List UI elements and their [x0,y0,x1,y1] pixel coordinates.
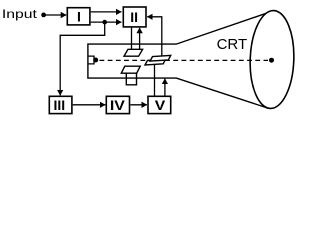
svg-text:I: I [77,8,81,24]
svg-text:IV: IV [110,97,126,113]
wire IV to V [130,104,147,106]
box I [67,8,90,25]
CRT neck and cone outline [88,13,268,108]
CRT screen ellipse [249,10,296,109]
wire III to IV [73,104,106,106]
lower plate tab below neck [126,73,136,85]
beam spot on screen [269,58,274,63]
electron beam dashed line [100,59,269,61]
wire input to box I [44,14,67,16]
svg-text:Input: Input [2,9,38,21]
svg-text:V: V [155,97,166,113]
box IV [106,96,129,113]
gun cathode dot [93,58,98,63]
wire box V up-arrow to neck bottom [164,79,166,96]
lower vertical-deflection plate [121,66,140,73]
wire box II bottom to upper plate (left lead) [131,27,133,49]
svg-text:CRT: CRT [217,36,248,53]
wire from rear deflection plate up and left into box II [147,17,162,56]
wire upper plate to box II with up arrow (right lead) [139,28,141,50]
rear horizontal-deflection plate [150,55,171,61]
electron gun [88,56,94,64]
wire I to II upper [91,11,122,13]
box II [123,7,146,27]
box III [49,96,72,113]
upper vertical-deflection plate [124,49,143,56]
box V [148,96,171,113]
front horizontal-deflection plate [145,59,166,65]
svg-text:II: II [130,9,138,25]
wire front plate down to box V [154,65,156,96]
wire I to II lower [91,21,122,23]
junction node on lower wire [102,20,107,25]
svg-text:III: III [53,97,65,113]
feedback wire junction down-left to box III [60,22,104,95]
input node dot [41,13,46,18]
